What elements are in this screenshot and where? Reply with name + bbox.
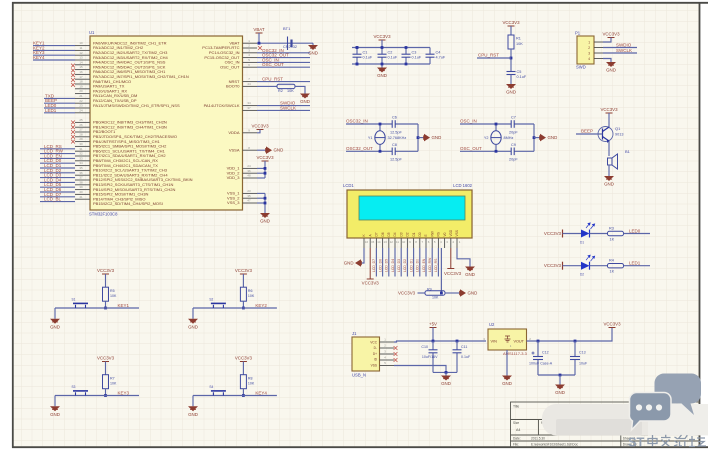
ground at S2: [188, 319, 198, 324]
wire P1 pin1 to VCC3V3: [603, 38, 611, 43]
buzzer B1 (speaker symbol): [608, 154, 618, 169]
svg-text:VCC3V3: VCC3V3: [251, 123, 269, 128]
svg-text:VCC3V3: VCC3V3: [502, 20, 520, 25]
ground at VSS pins: [260, 213, 270, 218]
wire LCD V0 pin to contrast divider: [440, 248, 442, 293]
power port VCC3V3 at buzzer: [606, 112, 613, 114]
svg-text:CPU_RST: CPU_RST: [262, 77, 283, 82]
svg-text:0.1uF: 0.1uF: [363, 56, 373, 60]
wire C12/C13 ground rail: [538, 374, 575, 376]
svg-text:16: 16: [79, 70, 83, 74]
svg-text:4: 4: [588, 57, 590, 61]
svg-text:47: 47: [247, 199, 251, 203]
power port VCC3V3 at VDDA: [257, 129, 264, 131]
svg-text:23: 23: [247, 189, 251, 193]
svg-text:10K: 10K: [110, 382, 117, 386]
wire net LCD_D6 from LCD: [382, 248, 384, 277]
power port VCC3V3 at decoupling bank: [379, 39, 386, 41]
svg-text:D+: D+: [373, 352, 377, 356]
watermark light band: [542, 404, 708, 435]
wire J1 VSS to ground rail: [394, 366, 446, 373]
svg-text:14: 14: [79, 60, 83, 64]
wire key row net KEY2: [193, 307, 277, 309]
svg-text:32.768KHz: 32.768KHz: [388, 136, 407, 140]
power port VCC3V3 at S3: [102, 361, 109, 363]
svg-text:35: 35: [79, 166, 83, 170]
svg-text:1K: 1K: [610, 270, 615, 274]
svg-text:R5: R5: [110, 289, 115, 293]
svg-text:36: 36: [247, 169, 251, 173]
svg-text:LCD_D2: LCD_D2: [403, 259, 407, 272]
resistor R4 1K: [608, 264, 624, 268]
wire net LCD_D3 to U1: [40, 177, 75, 179]
svg-text:27: 27: [79, 128, 83, 132]
watermark bubble dots: [636, 404, 662, 410]
svg-text:10K: 10K: [432, 295, 439, 299]
svg-text:VSS: VSS: [455, 230, 459, 236]
ground at S4: [188, 406, 198, 411]
svg-text:40: 40: [79, 190, 83, 194]
wire net OSC32_IN from U1: [257, 52, 310, 54]
svg-text:S3: S3: [72, 385, 76, 389]
svg-text:48: 48: [247, 174, 251, 178]
ground at U2: [502, 376, 512, 381]
wire C5 to ground: [510, 75, 512, 85]
svg-text:D5: D5: [387, 232, 391, 236]
wire net LCD_D4 to U1: [40, 181, 75, 183]
connector P1 pin stubs: [594, 42, 603, 59]
svg-text:D2: D2: [580, 273, 584, 277]
LCD screen area: [359, 196, 465, 220]
battery BT1 CR2032: [288, 37, 292, 51]
svg-text:KEY4: KEY4: [33, 55, 45, 60]
wire buzzer to ground: [608, 165, 610, 176]
svg-text:SWCLK: SWCLK: [616, 48, 632, 53]
svg-text:BEEP: BEEP: [581, 129, 593, 134]
svg-text:GND: GND: [50, 324, 60, 329]
power port VCC3V3 at LCD VDD: [447, 268, 454, 270]
wire OSC32_OUT to C8: [346, 150, 418, 152]
svg-text:KEY3: KEY3: [118, 390, 130, 395]
wire net CPU_RST from U1 NRST: [257, 81, 310, 83]
svg-text:GND: GND: [274, 148, 284, 153]
svg-text:GND: GND: [432, 135, 442, 140]
svg-text:Y1: Y1: [368, 136, 373, 140]
svg-text:D7: D7: [375, 232, 379, 236]
ground at Y2 (arrow style): [540, 134, 546, 142]
power port VCC3V3 at LED D1 (bar style): [562, 230, 564, 238]
wire VCC to R8: [242, 362, 244, 375]
transistor Q1 9013: [598, 127, 613, 142]
svg-text:29: 29: [79, 137, 83, 141]
no-connect marks on unused U1 left pins (section 2): [71, 121, 75, 144]
svg-text:GND: GND: [441, 381, 451, 386]
svg-text:SWDIO: SWDIO: [616, 42, 632, 47]
wire key row net KEY3: [55, 395, 139, 397]
wire net SWDIO from U1: [257, 105, 310, 107]
svg-text:VCC3V3: VCC3V3: [362, 281, 380, 286]
capacitor C11 0.1uF: [456, 341, 458, 350]
svg-text:RW: RW: [430, 231, 434, 236]
capacitor C13 10uF: [574, 341, 576, 357]
svg-text:0.1uF: 0.1uF: [412, 56, 422, 60]
svg-text:16: 16: [365, 240, 369, 244]
svg-text:OSC32_IN: OSC32_IN: [346, 119, 368, 124]
svg-text:15: 15: [79, 65, 83, 69]
wire J1 VCC to +5V rail: [394, 341, 486, 342]
svg-text:LCD_RS: LCD_RS: [434, 258, 438, 272]
svg-text:LED1: LED1: [45, 108, 57, 113]
svg-text:C5: C5: [517, 70, 522, 74]
wire net LCD_D5 to U1: [40, 186, 75, 188]
ground at C12/C13: [559, 375, 561, 385]
svg-text:VSS: VSS: [371, 364, 377, 368]
ground at Y1 (arrow style): [424, 134, 430, 142]
capacitor C1 0.1uF: [356, 48, 358, 55]
wire VCC to R7: [105, 362, 107, 375]
wire net LCD_D0 to U1: [40, 162, 75, 164]
svg-text:3: 3: [588, 51, 590, 55]
svg-text:37: 37: [247, 106, 251, 110]
svg-text:PB15/I2C2_SD/TIM4_CH4/SPI2_MOS: PB15/I2C2_SD/TIM4_CH4/SPI2_MOSI: [93, 201, 163, 206]
LED D1: [581, 230, 590, 238]
svg-text:31: 31: [79, 147, 83, 151]
svg-text:LCD_EN: LCD_EN: [422, 258, 426, 272]
wire R7 to key junction: [105, 389, 107, 396]
wire VBAT from U1 pin1 to battery: [257, 42, 313, 44]
wire net KEY4 to U1: [33, 59, 75, 61]
svg-text:GND: GND: [188, 324, 198, 329]
svg-text:PA13/JTMS/SWDIO/TIM2_CH1_ETR/S: PA13/JTMS/SWDIO/TIM2_CH1_ETR/SPI1_NSS: [93, 103, 180, 108]
svg-text:U2: U2: [489, 322, 495, 327]
svg-text:LCD_D6: LCD_D6: [378, 259, 382, 272]
svg-text:12: 12: [79, 51, 83, 55]
wire VCC3V3 to R9: [418, 292, 426, 294]
svg-text:23: 23: [79, 104, 83, 108]
power port VCC3V3 at S2: [240, 273, 247, 275]
svg-text:SWCLK: SWCLK: [280, 105, 296, 110]
wire key to ground: [192, 396, 194, 407]
capacitor C2 0.1uF: [381, 48, 383, 55]
svg-text:D0: D0: [418, 232, 422, 236]
svg-text:GND: GND: [502, 381, 512, 386]
svg-text:R8: R8: [248, 377, 253, 381]
ground at VSSA (arrow style): [257, 149, 266, 151]
push button S1: [73, 303, 88, 308]
wire U2 VOUT rail to VCC3V3: [527, 328, 613, 342]
wire right rail of Y2: [533, 124, 535, 151]
svg-text:GND: GND: [548, 135, 558, 140]
svg-text:LCD_RW: LCD_RW: [428, 257, 432, 272]
svg-text:RS: RS: [437, 232, 441, 236]
power port VBAT: [256, 32, 263, 34]
wire C10/C11 ground rail: [433, 371, 457, 373]
svg-text:26: 26: [79, 123, 83, 127]
svg-text:GND: GND: [377, 73, 387, 78]
svg-text:C11: C11: [461, 345, 467, 349]
title block frame: [511, 402, 700, 447]
svg-text:VBAT: VBAT: [253, 27, 264, 32]
svg-text:P1: P1: [575, 31, 581, 36]
svg-text:41: 41: [79, 195, 83, 199]
svg-text:Q1: Q1: [615, 126, 621, 131]
svg-text:VCC3V3: VCC3V3: [602, 31, 620, 36]
LED D2: [581, 262, 590, 270]
wire OSC_IN to C7: [460, 123, 534, 125]
wire net LCD_D7 to U1: [40, 196, 75, 198]
svg-text:10K: 10K: [287, 89, 294, 93]
wire net LCD_D0 from LCD: [419, 248, 421, 277]
microcontroller U1 body: [90, 36, 243, 210]
svg-text:R1: R1: [516, 37, 521, 41]
svg-text:C4: C4: [436, 51, 441, 55]
no-connect marks on J1 D-/D+/ID: [394, 346, 398, 350]
wire LCD K pin to ground: [361, 248, 364, 263]
resistor R6 10K: [240, 287, 246, 301]
svg-text:VDD: VDD: [449, 229, 453, 236]
svg-text:1: 1: [588, 40, 590, 44]
wire R1 to junction: [510, 49, 512, 72]
microcontroller U1 right pin stubs and numbers (section 2): [243, 128, 258, 203]
LCD pin name labels (rotated): [362, 229, 459, 236]
svg-text:OSC32_OUT: OSC32_OUT: [346, 146, 373, 151]
capacitor C4 4.7uF: [429, 48, 431, 55]
svg-text:4.7uF: 4.7uF: [436, 56, 446, 60]
wire key to ground: [54, 308, 56, 319]
svg-text:GND: GND: [188, 412, 198, 417]
power port VCC3V3 at LED D2 (bar style): [562, 262, 564, 270]
svg-text:GND: GND: [506, 90, 516, 95]
wire decoupling bottom rail: [352, 63, 430, 65]
wire net SWCLK from U1: [257, 109, 310, 111]
svg-text:SWD: SWD: [576, 65, 586, 70]
watermark front speech bubble: [629, 393, 671, 431]
svg-text:2011.5.30: 2011.5.30: [531, 437, 545, 441]
svg-text:C7: C7: [511, 116, 516, 120]
svg-text:GND: GND: [468, 290, 478, 295]
watermark text (chinese forum glyphs): [648, 435, 706, 447]
svg-text:LCD 1602: LCD 1602: [453, 183, 473, 188]
svg-text:VCC3V3: VCC3V3: [256, 155, 274, 160]
wire net LCD_D1 to U1: [40, 167, 75, 169]
svg-text:25: 25: [79, 118, 83, 122]
wire P1 pin4 to ground: [603, 59, 611, 63]
capacitor C6: [392, 120, 395, 128]
svg-text:VCC3V3: VCC3V3: [235, 355, 253, 360]
power port VCC3V3 at S1: [102, 273, 109, 275]
svg-text:C10: C10: [421, 345, 428, 349]
microcontroller U1 internal pin-name text section 1: [93, 40, 240, 107]
capacitor C5 0.1uF: [507, 71, 516, 73]
svg-text:R2: R2: [278, 89, 283, 93]
svg-text:VCC3V3: VCC3V3: [373, 34, 391, 39]
capacitor C10 10uF/16V: [432, 341, 434, 350]
svg-text:24: 24: [247, 164, 251, 168]
svg-text:R6: R6: [248, 289, 253, 293]
svg-text:C9: C9: [511, 143, 516, 147]
svg-text:10: 10: [79, 41, 83, 45]
resistor R3 1K: [608, 231, 624, 235]
wire net LCD_D5 from LCD: [388, 248, 390, 277]
svg-text:12: 12: [390, 240, 394, 244]
svg-text:10uF/16V: 10uF/16V: [422, 355, 438, 359]
wire LED D2 to resistor R4: [590, 265, 608, 267]
svg-text:D1: D1: [412, 232, 416, 236]
wire R6 to key junction: [242, 301, 244, 308]
svg-text:14: 14: [377, 240, 381, 244]
svg-text:GND: GND: [604, 182, 614, 187]
svg-text:LCD_D1: LCD_D1: [409, 259, 413, 272]
wire net LCD_RS from LCD: [437, 248, 439, 277]
svg-text:GND: GND: [555, 390, 565, 395]
resistor R7 10K: [103, 375, 109, 389]
svg-text:File:: File:: [513, 443, 519, 447]
ground at C10/C11: [445, 372, 447, 375]
svg-text:0.1uF: 0.1uF: [517, 75, 527, 79]
capacitor C12 100uF (polarized): [537, 341, 539, 357]
ground at LCD VSS: [465, 267, 475, 272]
svg-text:A4: A4: [516, 428, 520, 432]
svg-text:R3: R3: [609, 227, 614, 231]
resistor R8 10K: [240, 375, 246, 389]
svg-text:GND: GND: [300, 99, 310, 104]
svg-text:VIN: VIN: [491, 340, 498, 344]
svg-text:KEY4: KEY4: [255, 390, 267, 395]
svg-text:CR2032: CR2032: [283, 45, 297, 49]
svg-text:OSC_OUT: OSC_OUT: [460, 146, 482, 151]
svg-text:1K: 1K: [610, 238, 615, 242]
corner junctions of cap bank: [356, 46, 359, 49]
microcontroller U1 right pin stubs and numbers (section 1): [243, 39, 258, 111]
push button S4: [211, 391, 226, 396]
svg-text:28: 28: [79, 132, 83, 136]
wire OSC_OUT to C9: [460, 150, 534, 152]
svg-text:C1: C1: [363, 51, 368, 55]
wire net LCD_D6 to U1: [40, 191, 75, 193]
svg-text:20pF: 20pF: [509, 130, 518, 134]
svg-text:R9: R9: [427, 288, 432, 292]
ground at buzzer: [604, 176, 614, 181]
resistor R2: [277, 84, 295, 88]
crystal Y2 8MHz: [495, 124, 497, 131]
svg-text:22: 22: [79, 99, 83, 103]
capacitor C9: [511, 148, 514, 156]
svg-text:44: 44: [247, 82, 251, 86]
svg-text:0.1uF: 0.1uF: [388, 56, 398, 60]
svg-text:STM32F103C8: STM32F103C8: [89, 212, 118, 217]
svg-text:E:\eeworks\F103\Sheet1.SchDoc: E:\eeworks\F103\Sheet1.SchDoc: [531, 443, 578, 447]
microcontroller U1 left pin stubs and pin numbers: [75, 41, 90, 199]
svg-text:R4: R4: [609, 259, 614, 263]
wire net LCD_EN from LCD: [425, 248, 427, 277]
title block text: [513, 405, 638, 447]
svg-text:KEY2: KEY2: [255, 303, 267, 308]
svg-text:19: 19: [79, 84, 83, 88]
svg-text:21: 21: [79, 94, 83, 98]
svg-text:KEY1: KEY1: [118, 303, 130, 308]
wire R9 to ground: [445, 292, 460, 294]
svg-text:VDD_3: VDD_3: [227, 175, 241, 180]
wire net SWDIO at P1: [603, 47, 637, 49]
wire R8 to key junction: [242, 389, 244, 396]
svg-text:OSC_OUT: OSC_OUT: [262, 62, 284, 67]
svg-text:VCC3V3: VCC3V3: [97, 355, 115, 360]
svg-text:33: 33: [79, 156, 83, 160]
svg-text:VSS_3: VSS_3: [227, 200, 240, 205]
wire key row net KEY1: [55, 307, 139, 309]
svg-text:R7: R7: [110, 377, 115, 381]
ground at battery BT1: [312, 43, 314, 45]
ground at S1: [50, 319, 60, 324]
wire net LCD_D3 from LCD: [400, 248, 402, 277]
wire net BEEP to U1: [44, 102, 75, 104]
connector P1 body (SWD header): [577, 36, 594, 64]
svg-text:LCD_D0: LCD_D0: [416, 259, 420, 272]
wire net LCD_RW from LCD: [431, 248, 433, 277]
ground at LCD backlight K (arrow style, left): [355, 259, 361, 267]
wire U2 GND pin to ground: [506, 350, 508, 376]
no-connect mark on PC13 pin: [258, 46, 262, 50]
ground at contrast divider (arrow style): [460, 289, 466, 297]
wire OSC32_IN to C6: [346, 123, 418, 125]
wire net LCD_RS to U1: [40, 148, 75, 150]
svg-text:USB_N: USB_N: [352, 373, 366, 378]
wire net LCD_D2 to U1: [40, 172, 75, 174]
watermark back speech bubble: [655, 374, 702, 416]
push button S3: [73, 391, 88, 396]
svg-text:VOUT: VOUT: [513, 340, 524, 344]
svg-text:ST: ST: [628, 435, 645, 450]
svg-text:11: 11: [396, 240, 399, 244]
svg-text:LCD_D7: LCD_D7: [372, 259, 376, 272]
wire BOOT0 to resistor R2: [257, 85, 277, 87]
svg-text:Title: Title: [513, 405, 519, 409]
svg-text:B1: B1: [625, 149, 631, 154]
wire R5 to key junction: [105, 301, 107, 308]
svg-text:VCC3V3: VCC3V3: [603, 321, 621, 326]
wire VCC to Q1 collector: [608, 113, 610, 127]
svg-text:D-: D-: [374, 346, 377, 350]
LCD pin stubs and numbers: [364, 238, 461, 248]
svg-text:10K: 10K: [248, 294, 255, 298]
svg-text:17: 17: [79, 75, 83, 79]
svg-text:LCD_D5: LCD_D5: [385, 259, 389, 272]
svg-text:10K: 10K: [248, 382, 255, 386]
svg-text:GND: GND: [260, 219, 270, 224]
wire VCC to R1: [510, 26, 512, 35]
wire net OSC_OUT from U1: [257, 66, 310, 68]
svg-text:PA14/JTCK/SWCLK: PA14/JTCK/SWCLK: [204, 103, 240, 108]
ground at C5: [506, 84, 516, 89]
ground at R2: [300, 94, 310, 99]
svg-text:VCC3V3: VCC3V3: [600, 107, 618, 112]
svg-text:C13: C13: [579, 351, 586, 355]
svg-text:C8: C8: [392, 143, 397, 147]
svg-text:100uF Case-A: 100uF Case-A: [529, 362, 553, 366]
svg-text:11: 11: [79, 46, 82, 50]
crystal Y1 32.768KHz: [379, 124, 381, 131]
power port VCC3V3 at regulator output: [609, 327, 616, 329]
svg-text:39: 39: [79, 185, 83, 189]
svg-text:C6: C6: [392, 116, 397, 120]
wire net KEY2 to U1: [33, 49, 75, 51]
microcontroller U1 internal pin-name text section 2: [93, 120, 240, 207]
svg-text:Date:: Date:: [513, 437, 521, 441]
wire right rail of Y1: [417, 124, 419, 151]
svg-text:GND: GND: [50, 412, 60, 417]
wire VCC to R6: [242, 274, 244, 287]
wire LED D1 to resistor R3: [590, 233, 608, 235]
